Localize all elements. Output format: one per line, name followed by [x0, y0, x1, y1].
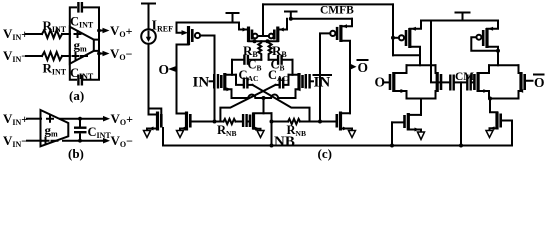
cross wire D2 [220, 85, 275, 122]
svg-text:NB: NB [274, 134, 295, 150]
wire RINT to box bottom row [62, 55, 70, 57]
transistor MD4 [519, 72, 522, 92]
wire right box bottom stub [490, 99, 497, 113]
wire output top row (b) [60, 118, 104, 120]
wire CM mid drop to NB rail [460, 82, 462, 145]
wire CAC left to cross [249, 84, 253, 86]
node dot vdd [289, 17, 293, 21]
svg-text:(b): (b) [68, 146, 84, 161]
wire CM drop [431, 21, 440, 83]
VDD tee mid-left [227, 13, 239, 23]
amp output leads to box edge (a) [94, 40, 99, 51]
diff pair box rails left [407, 65, 436, 98]
VDD rail to MP2 [291, 18, 352, 20]
svg-text:(c): (c) [318, 146, 332, 161]
NB line to MN3 cap [236, 121, 243, 123]
NB rail bottom [163, 128, 512, 146]
transistor MD1 [389, 74, 392, 90]
transistor MIN (input nmos) [220, 75, 223, 88]
transistor MP4 (center pmos right) [276, 27, 279, 43]
wire NB drop center [271, 113, 273, 145]
feedback box (a) [70, 7, 99, 79]
node dot MP1 gate on NB [213, 120, 217, 124]
wire VIN+ to RINT [26, 33, 42, 35]
ground MN1 [144, 131, 151, 138]
VDD tee left [142, 4, 155, 30]
node dot NB rail CM drop [459, 144, 463, 148]
wire CAC drop left [236, 75, 243, 85]
cross wire D1 [253, 85, 310, 122]
capacitor CB left [232, 59, 261, 61]
wire O to MD1 gate [384, 81, 389, 83]
capacitor CB right [269, 59, 293, 61]
VDD tee right [456, 13, 470, 21]
transistor MN1 (diode bias nmos) [156, 112, 159, 131]
NB line left segment [192, 121, 224, 123]
wire CMFB drop [392, 4, 394, 55]
NB line right segment [300, 121, 337, 123]
transistor MP2 (right pmos) [339, 25, 342, 42]
node dot output bottom (a) [97, 52, 101, 56]
capacitor CAC right [282, 78, 284, 89]
transistor MN2 (left branch nmos) [185, 112, 188, 131]
capacitor CM right [466, 75, 468, 91]
node dot NB rail center [270, 144, 274, 148]
wire RINT to box top row [62, 33, 70, 35]
wire CMFB riser to center gates [258, 4, 269, 36]
wire+arrow VO+ (a) [99, 30, 104, 32]
wire CM to MD3 gate [472, 81, 473, 83]
wire+arrow VO- (a) [99, 53, 104, 55]
resistor RINT bottom (a) [42, 52, 62, 60]
wire left box bottom stub [420, 99, 422, 115]
node dot output top (a) [97, 29, 101, 33]
wire MT1 gate drop [391, 122, 393, 145]
node dot NB rail MT1 gate [390, 144, 394, 148]
transistor MD3 [473, 74, 476, 90]
resistor RB right [269, 41, 272, 60]
node dot top (b) [78, 117, 82, 121]
resistor RNB left [224, 119, 236, 124]
svg-text:O: O [159, 62, 170, 77]
wire IREF down [148, 44, 150, 115]
transistor MD2 [436, 72, 439, 92]
svg-text:CMFB: CMFB [320, 5, 354, 17]
node dot bottom (b) [78, 139, 82, 143]
diff pair box rails right [489, 65, 519, 98]
wire CB riser left [231, 60, 233, 75]
transistor MINbar (input nmos right) [301, 75, 304, 88]
input + mark top (b) [47, 116, 53, 122]
wire VIN- to RINT [26, 55, 42, 57]
resistor RINT top (a) [42, 30, 62, 38]
node dot MP5 gate [391, 36, 395, 40]
node dot right box bottom [488, 97, 492, 101]
node dot MP2 gate on NB [318, 120, 322, 124]
arrow to Obar [351, 64, 357, 69]
transistor MN4 (right branch nmos) [339, 112, 342, 131]
transistor MP3 (center pmos left) [247, 27, 250, 43]
node dot NB center [270, 120, 274, 124]
wire MP1 gate drop to NB line [214, 36, 216, 122]
arrow VO- (b) [103, 138, 110, 144]
capacitor CM left [449, 75, 451, 91]
resistor RB left [258, 41, 261, 60]
capacitor CINT top (a) [77, 2, 79, 13]
svg-text:IN: IN [314, 75, 331, 91]
capacitor CINT bottom (a) [77, 75, 79, 86]
wire VIN- to amp (b) [27, 140, 41, 142]
svg-text:IN: IN [193, 75, 210, 91]
node dot drain left [253, 39, 257, 43]
wire CAC right to cross [276, 84, 279, 86]
ground MN4 [349, 131, 356, 138]
wire CAC drop right [284, 75, 288, 85]
svg-text:(a): (a) [69, 88, 84, 103]
input +- marks bottom (b) [43, 138, 58, 144]
svg-text:O: O [534, 75, 545, 90]
resistor RNB right [288, 119, 300, 124]
ground MT2 [486, 131, 493, 138]
tail wire with hops [232, 95, 296, 98]
transistor MT1 (left tail) [403, 115, 406, 128]
current source IREF [141, 29, 156, 44]
svg-text:O: O [358, 60, 369, 75]
NB line right of center [272, 121, 289, 123]
wire center pmos drains [249, 40, 278, 42]
ground MN3 [257, 131, 264, 138]
input +- marks bottom (a) [73, 53, 88, 59]
wire tail to MN3 drain [263, 98, 265, 113]
wire CB riser right [292, 60, 294, 75]
node dot tail [262, 96, 266, 100]
transistor MP5 (cmfb pmos diode) [393, 37, 399, 39]
transistor MP1 (left pmos) [187, 26, 190, 45]
ground MT1 [418, 132, 425, 140]
input + mark top (a) [75, 31, 81, 37]
transistor MP6 (diode pmos right) [476, 35, 481, 40]
op-amp gm trapezoid (b) [41, 110, 69, 146]
wire VIN+ to amp (b) [27, 118, 41, 120]
transistor MN3 (tail nmos) [249, 115, 252, 128]
capacitor CAC left [243, 78, 245, 89]
op-amp gm trapezoid (a) [70, 27, 94, 64]
coupling cap at IN gate [210, 80, 214, 82]
node dot drain right [266, 39, 270, 43]
arrow VO+ (b) [103, 116, 110, 122]
wire CM mid [455, 81, 466, 83]
capacitor MN3 gate [242, 114, 244, 127]
VDD tee mid-right [285, 12, 297, 19]
arrow to O [168, 66, 176, 71]
VDD rail right section [421, 20, 498, 22]
node dot MP6 [496, 49, 500, 53]
wire output bottom row (b) [63, 140, 104, 142]
VDD rail first stage left [177, 22, 240, 24]
transistor MT2 (right tail) [495, 112, 498, 130]
capacitor CINT (b) [79, 119, 81, 141]
CMFB rail [263, 3, 393, 5]
node O column wire [176, 45, 178, 114]
ground MN2 [177, 131, 184, 138]
coupling cap at INbar gate [311, 80, 313, 82]
